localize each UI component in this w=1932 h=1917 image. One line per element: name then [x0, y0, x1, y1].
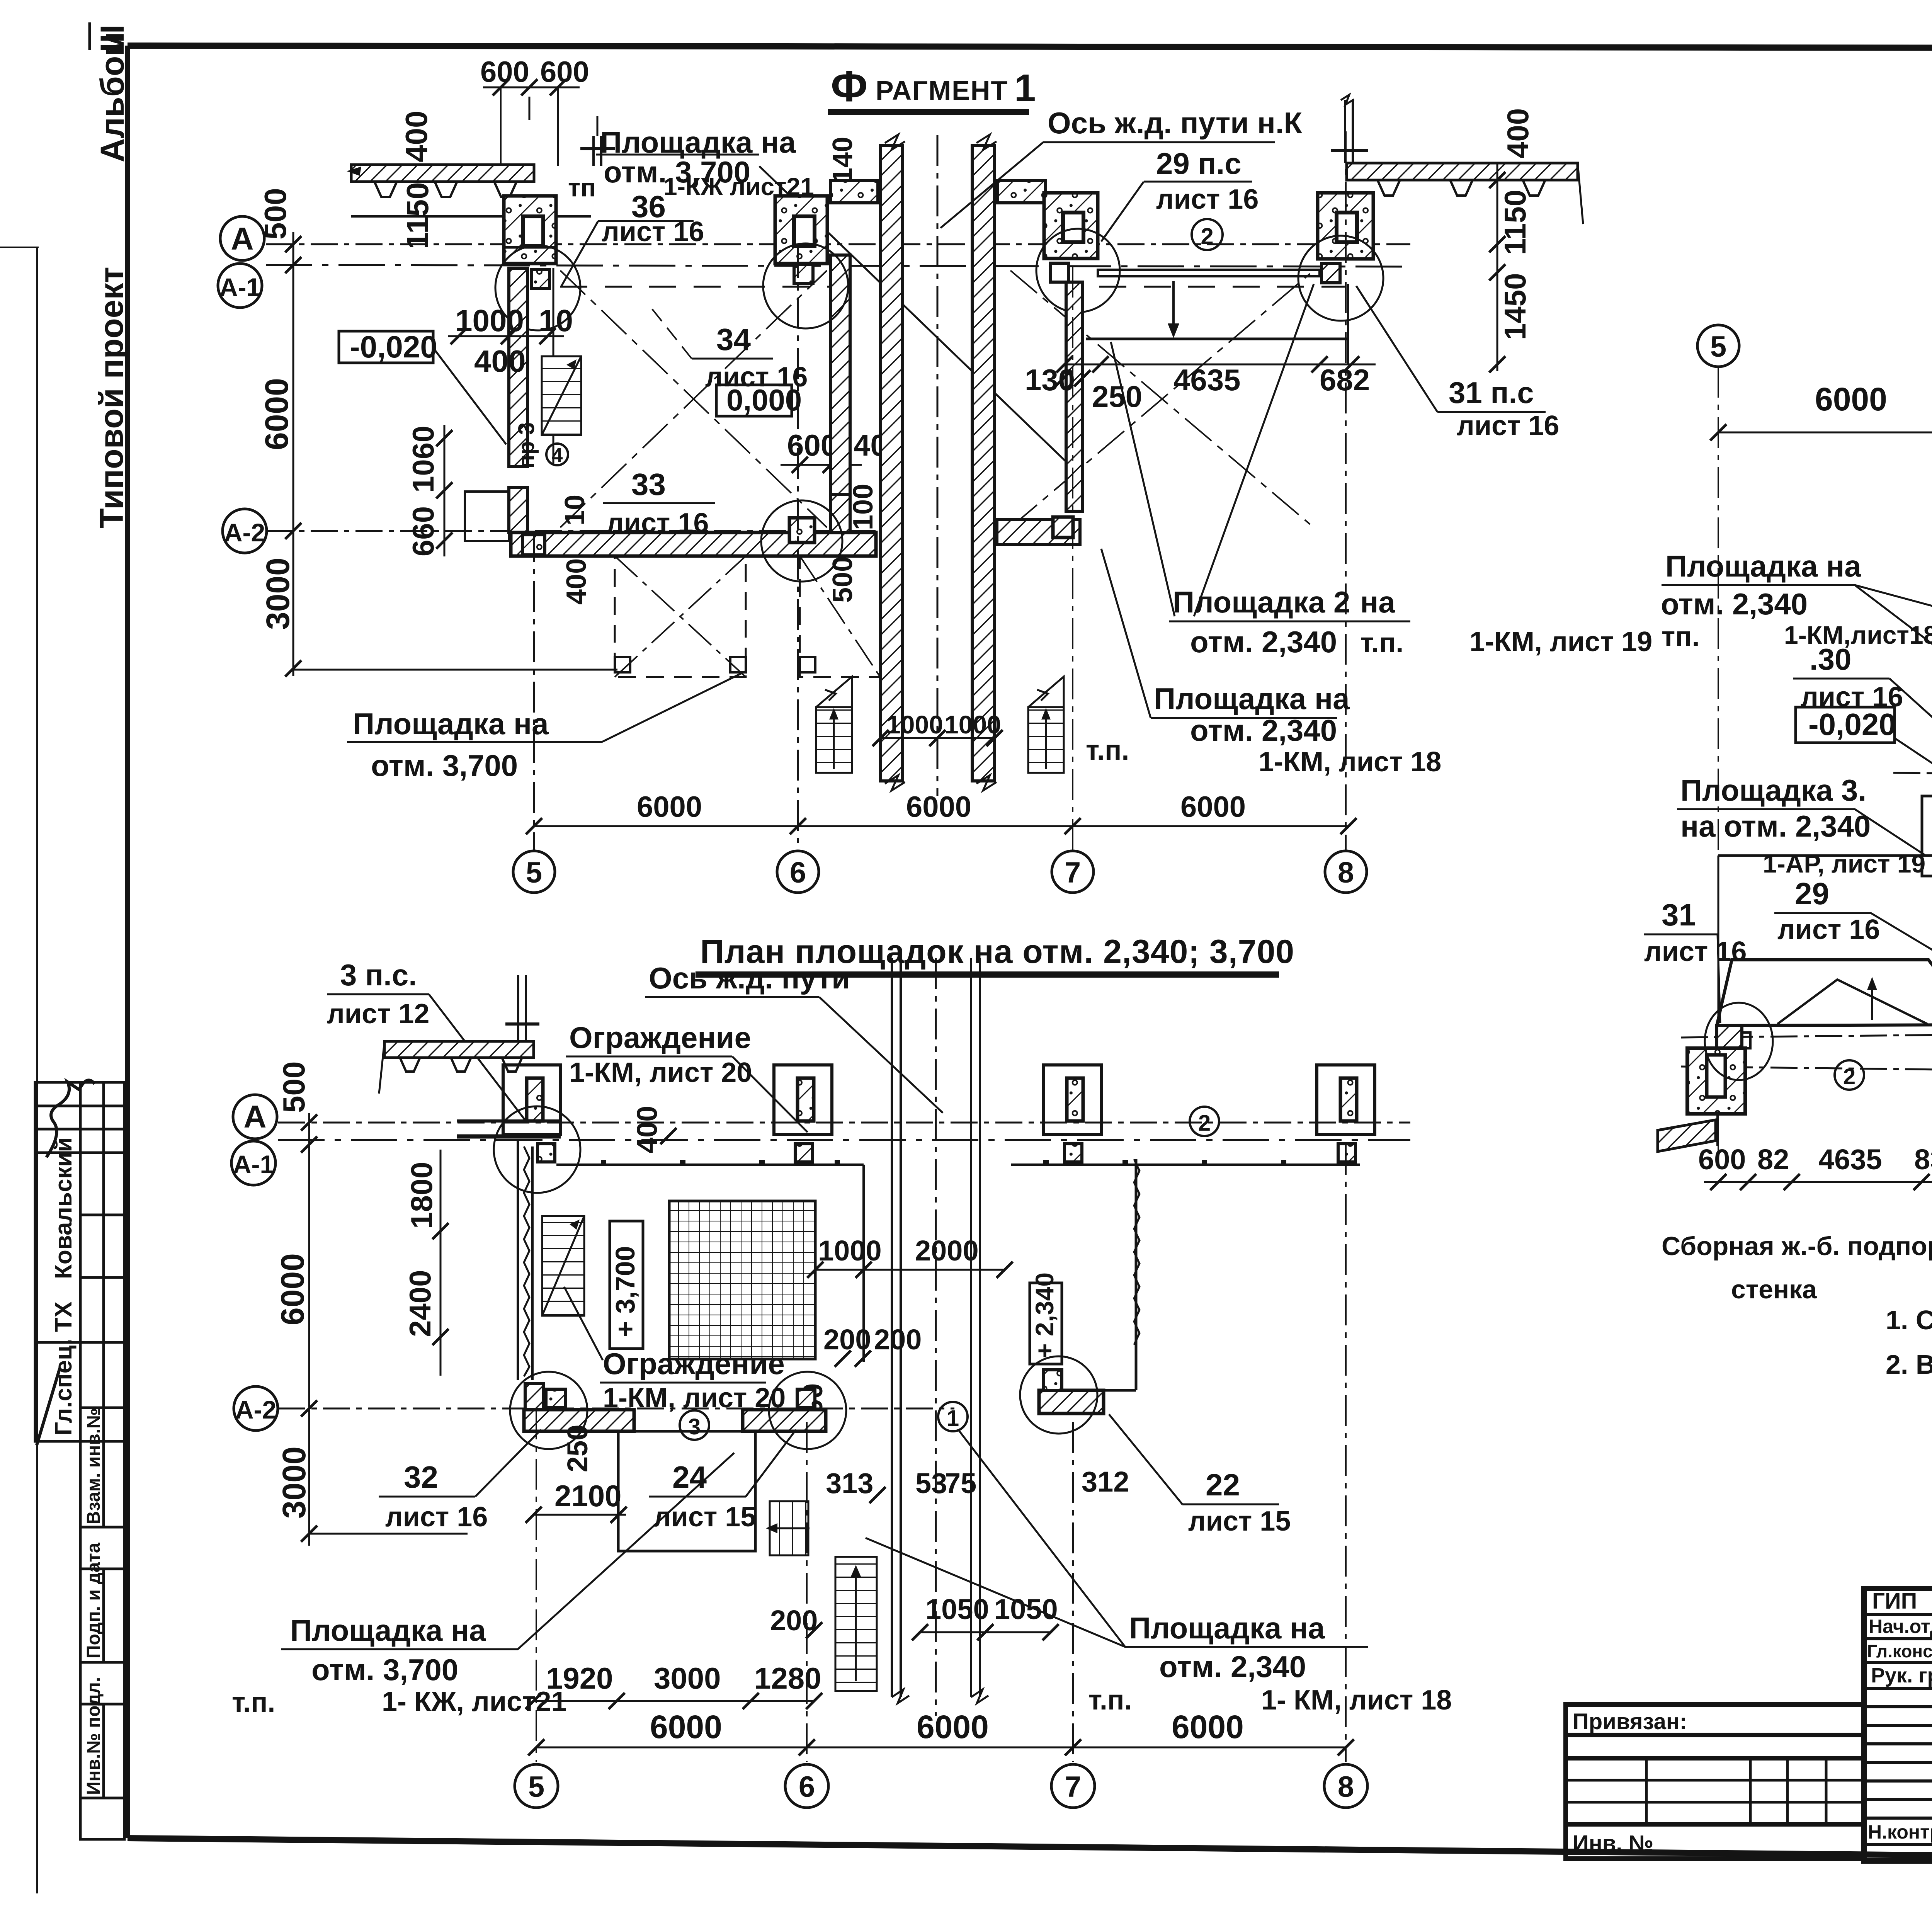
svg-text:1-КМ, лист 18: 1-КМ, лист 18 [1259, 747, 1441, 777]
column at axis7/A [1044, 193, 1098, 259]
svg-text:200: 200 [770, 1604, 818, 1636]
svg-text:Ограждение: Ограждение [603, 1347, 785, 1381]
svg-text:отм. 3,700: отм. 3,700 [371, 748, 518, 782]
outer sheet edge thin line left [36, 247, 38, 1893]
svg-text:313: 313 [826, 1467, 873, 1499]
lower room outline [618, 1431, 755, 1551]
wavy fence right side [1134, 1159, 1139, 1345]
axis circle 8 [1325, 851, 1367, 893]
lower margin boxes [80, 1441, 124, 1839]
svg-text:5: 5 [526, 856, 542, 889]
svg-text:3: 3 [688, 1414, 701, 1439]
dim line 4635 682 [1065, 364, 1376, 366]
Б axis [1681, 1067, 1932, 1078]
svg-text:100: 100 [848, 484, 879, 530]
svg-text:1- КМ, лист 18: 1- КМ, лист 18 [1261, 1685, 1452, 1716]
svg-text:III: III [94, 24, 131, 52]
svg-text:лист 16: лист 16 [385, 1502, 488, 1533]
circle 2 marker [1192, 219, 1223, 250]
svg-text:1060: 1060 [406, 425, 440, 493]
svg-text:2. Ведомость перемычек дана на: 2. Ведомость перемычек дана на листе 9. [1886, 1349, 1932, 1379]
circle 3 marker on A-2 [680, 1410, 709, 1440]
svg-text:лист 16: лист 16 [602, 216, 704, 247]
svg-text:1920: 1920 [546, 1661, 613, 1695]
svg-text:2400: 2400 [403, 1270, 437, 1337]
corner squares in band [522, 535, 545, 555]
left corner post [1717, 1026, 1742, 1048]
svg-text:500: 500 [827, 556, 858, 603]
stairs flanking rail below A-2 [816, 677, 1064, 773]
right vertical dim chain [1497, 162, 1498, 371]
svg-text:6000: 6000 [1180, 791, 1246, 823]
svg-text:Инв.№ подл.: Инв.№ подл. [83, 1677, 104, 1795]
svg-text:5: 5 [1710, 330, 1726, 363]
vertical axis stubs bottom [536, 1408, 537, 1762]
svg-text:400: 400 [399, 111, 434, 162]
svg-text:Площадка на: Площадка на [1665, 549, 1861, 583]
svg-text:А-1: А-1 [219, 273, 260, 301]
svg-text:Типовой проект: Типовой проект [93, 267, 130, 529]
svg-text:ГИП: ГИП [1872, 1589, 1917, 1614]
roof slab band (hatched) [351, 165, 534, 182]
svg-text:2: 2 [1198, 1111, 1211, 1136]
svg-text:83: 83 [1914, 1143, 1932, 1175]
column at axis5/A (concrete) [504, 196, 556, 264]
svg-text:на отм. 2,340: на отм. 2,340 [1680, 809, 1871, 843]
column at axis8/A [1318, 193, 1373, 259]
svg-text:10: 10 [539, 303, 573, 338]
svg-text:отм. 2,340: отм. 2,340 [1159, 1650, 1306, 1684]
big X cross right room (dash-dot) [1010, 270, 1314, 527]
svg-text:лист 15: лист 15 [653, 1502, 756, 1533]
svg-text:Ковальский: Ковальский [50, 1137, 77, 1279]
svg-text:400: 400 [631, 1106, 663, 1153]
rail corridor fragment 1 [881, 134, 997, 796]
small anchor square below column 5 [531, 269, 549, 289]
axis circle 8 [1324, 1764, 1367, 1808]
svg-text:т.п.: т.п. [1086, 735, 1129, 766]
svg-text:6000: 6000 [274, 1253, 311, 1325]
svg-text:682: 682 [1320, 363, 1370, 397]
svg-text:6000: 6000 [1815, 381, 1887, 417]
left vertical dim line [293, 232, 294, 676]
leaders to Площадка 2 label [1111, 342, 1175, 616]
svg-text:Площадка на: Площадка на [290, 1613, 486, 1647]
top wall stubs near rail [831, 180, 878, 203]
Б-1 axis [1681, 1028, 1932, 1038]
svg-text:Площадка 3.: Площадка 3. [1680, 773, 1866, 807]
svg-text:10: 10 [560, 495, 590, 526]
svg-text:А-2: А-2 [235, 1395, 276, 1424]
left assembly geometry [1658, 742, 1932, 1152]
bottom dim line and axis circles [534, 825, 1349, 827]
svg-text:4635: 4635 [1173, 363, 1241, 397]
detail circle at column 5 base [495, 245, 580, 330]
column plan at axis7/A [1043, 1065, 1101, 1135]
column plan at axis5/A [503, 1065, 561, 1135]
top dim line 6000x3 [1718, 432, 1932, 434]
axis circle 7 [1052, 851, 1094, 893]
svg-text:32: 32 [404, 1460, 438, 1494]
svg-text:400: 400 [561, 558, 592, 605]
svg-text:лист 16: лист 16 [1156, 184, 1259, 215]
-0,020 box left [1796, 707, 1895, 743]
svg-text:312: 312 [1082, 1466, 1129, 1498]
circle 4 marker [546, 444, 568, 465]
right corner assembly at A-2 [1039, 1390, 1104, 1414]
detail circle at corner [1705, 1003, 1773, 1080]
svg-text:3000: 3000 [260, 558, 296, 630]
svg-text:6000: 6000 [637, 791, 702, 823]
svg-text:600: 600 [1698, 1143, 1746, 1175]
axis A-1 dash-dot [278, 1139, 1410, 1141]
dashed future openings below A-2 [615, 556, 880, 677]
svg-text:А: А [231, 221, 253, 257]
svg-text:Площадка на: Площадка на [1129, 1611, 1325, 1645]
svg-text:Нач.отд.: Нач.отд. [1869, 1616, 1932, 1637]
svg-text:лист 16: лист 16 [1644, 936, 1747, 967]
svg-text:Гл.спец. ТХ: Гл.спец. ТХ [50, 1301, 77, 1436]
svg-text:0,000: 0,000 [726, 383, 802, 417]
svg-text:Гл.констр: Гл.констр [1867, 1641, 1932, 1661]
svg-text:1450: 1450 [1498, 273, 1532, 340]
retaining wall trapezoid [1717, 960, 1932, 1026]
long leader diagonal from Площадка label [759, 166, 1074, 469]
stair in pit [542, 356, 581, 435]
svg-text:РАГМЕНТ: РАГМЕНТ [876, 75, 1008, 105]
circle 2 markers [1835, 1060, 1864, 1090]
svg-text:лист 15: лист 15 [1188, 1506, 1291, 1537]
svg-text:+ 3,700: + 3,700 [610, 1246, 640, 1337]
leader from box [433, 348, 506, 444]
svg-text:-0,020: -0,020 [1808, 707, 1896, 742]
white pilaster [1922, 796, 1932, 876]
svg-text:.30: .30 [1810, 642, 1851, 676]
svg-text:тп: тп [568, 173, 596, 202]
svg-text:1000: 1000 [944, 710, 1001, 739]
roof slab right (axis8) [1347, 163, 1578, 180]
floor lines at platform level [1718, 854, 1932, 857]
svg-text:82: 82 [1757, 1143, 1789, 1175]
svg-text:отм. 2,340: отм. 2,340 [1190, 713, 1337, 747]
svg-text:8: 8 [1338, 1771, 1354, 1803]
svg-text:Взам. инв.№: Взам. инв.№ [83, 1408, 104, 1524]
0,000 box [716, 385, 792, 416]
axis circle A [220, 216, 264, 260]
anchor square below column 6 [794, 264, 813, 284]
axis circle 6 [777, 851, 819, 893]
svg-text:А-1: А-1 [233, 1150, 274, 1179]
axis circle 5 [513, 851, 555, 893]
dim line at y=1730 [293, 669, 617, 671]
fence post above roof [592, 136, 595, 166]
svg-text:7: 7 [1065, 856, 1081, 889]
axis A dash-dot [278, 1122, 1410, 1124]
axis circles 5-8 top [1697, 325, 1739, 367]
svg-text:1-КМ, лист 19: 1-КМ, лист 19 [1469, 626, 1652, 657]
svg-text:400: 400 [1501, 108, 1535, 158]
far footing [1687, 1048, 1745, 1114]
svg-text:т.п.: т.п. [1360, 628, 1403, 658]
svg-text:отм. 2,340: отм. 2,340 [1661, 587, 1808, 621]
svg-text:250: 250 [561, 1425, 594, 1472]
signature squiggle [46, 1080, 95, 1157]
svg-text:200: 200 [823, 1323, 871, 1356]
axis circle A [233, 1095, 277, 1139]
bottom band right room [997, 520, 1080, 544]
sloped slab lower left [1658, 1120, 1716, 1152]
svg-text:Н.контр.: Н.контр. [1868, 1821, 1932, 1843]
svg-text:т.п.: т.п. [232, 1687, 275, 1718]
stair plan left [542, 1216, 584, 1316]
wavy fence line (left wall) [524, 1146, 529, 1376]
svg-text:22: 22 [1206, 1468, 1240, 1502]
circle 2 marker [1190, 1107, 1219, 1136]
axis circle A-1 [231, 1141, 276, 1185]
axis circle 5 [515, 1764, 558, 1808]
svg-text:6000: 6000 [650, 1709, 722, 1745]
bottom walls at A-2 [524, 1410, 634, 1431]
Б-2 axis [1893, 773, 1932, 780]
svg-text:1000: 1000 [886, 710, 943, 739]
svg-text:500: 500 [277, 1061, 311, 1113]
svg-text:1-КМ,лист18: 1-КМ,лист18 [1784, 621, 1932, 649]
axis A-2 dash-dot line [266, 530, 881, 532]
column plan at axis6/A [774, 1065, 832, 1135]
svg-text:Инв. №: Инв. № [1573, 1831, 1653, 1856]
svg-text:7: 7 [1065, 1771, 1081, 1803]
svg-text:53: 53 [915, 1467, 947, 1499]
svg-text:Привязан:: Привязан: [1573, 1709, 1687, 1734]
svg-text:3000: 3000 [276, 1446, 312, 1519]
bottom wall band A-2 (left pit) [511, 532, 876, 556]
svg-text:Площадка 2: Площадка 2 [1173, 585, 1350, 619]
+3,700 box rotated [610, 1221, 643, 1349]
svg-text:6000: 6000 [906, 791, 971, 823]
stamp outer [1864, 1589, 1932, 1861]
axis A-2 dash-dot [278, 1408, 954, 1410]
svg-text:6000: 6000 [917, 1709, 989, 1745]
down arrow [1172, 281, 1175, 332]
axis circle A-2 [234, 1386, 278, 1431]
column plan at axis8/A [1317, 1065, 1375, 1135]
svg-text:на: на [1360, 585, 1395, 619]
roof slab band [384, 1041, 534, 1058]
rails (thin double lines) [892, 958, 980, 1697]
svg-text:-0,020: -0,020 [350, 330, 437, 364]
svg-text:200: 200 [874, 1323, 922, 1356]
svg-text:34: 34 [716, 322, 751, 357]
svg-text:5: 5 [528, 1771, 544, 1803]
east wall of left pit (axis6) hatched [831, 255, 850, 495]
svg-text:400: 400 [474, 344, 526, 378]
svg-text:Сборная ж.-б. подпорная: Сборная ж.-б. подпорная [1662, 1232, 1932, 1261]
svg-text:500: 500 [258, 188, 293, 240]
fence post [517, 975, 519, 1041]
svg-text:6: 6 [799, 1771, 815, 1803]
svg-text:1-КМ, лист 20: 1-КМ, лист 20 [569, 1057, 752, 1088]
ribbed slab underside [351, 182, 534, 197]
svg-text:1. Спецификация на ворота и дв: 1. Спецификация на ворота и двери дана н… [1886, 1305, 1932, 1335]
svg-text:1: 1 [947, 1406, 959, 1431]
vertical stair lower [835, 1557, 877, 1691]
svg-text:Подп. и дата: Подп. и дата [83, 1543, 104, 1658]
svg-text:1: 1 [1014, 66, 1036, 110]
svg-text:140: 140 [827, 137, 858, 183]
svg-text:А: А [243, 1099, 266, 1135]
svg-text:600: 600 [540, 56, 589, 88]
svg-text:2: 2 [1201, 223, 1213, 249]
svg-text:тп.: тп. [1662, 621, 1700, 652]
svg-text:3 п.с.: 3 п.с. [340, 958, 417, 992]
vertical axis stubs [533, 531, 535, 850]
svg-text:130: 130 [1025, 363, 1075, 397]
svg-text:лист 12: лист 12 [327, 998, 429, 1029]
svg-text:Ось ж.д. пути н.К: Ось ж.д. пути н.К [1048, 106, 1303, 140]
signature block table (top) [35, 1082, 124, 1441]
svg-text:29: 29 [1795, 876, 1829, 911]
svg-text:+ 2,340: + 2,340 [1030, 1272, 1059, 1358]
svg-text:стенка: стенка [1731, 1275, 1817, 1304]
svg-text:3000: 3000 [654, 1661, 721, 1695]
svg-text:1000: 1000 [818, 1235, 882, 1267]
svg-text:29 п.с: 29 п.с [1156, 146, 1242, 180]
axis A-1 dash-dot line [266, 265, 1410, 267]
svg-text:лист 16: лист 16 [1777, 914, 1880, 945]
svg-text:6: 6 [790, 856, 806, 889]
vertical axis dash-dot lines [1718, 367, 1719, 1152]
svg-text:Рук. гр.: Рук. гр. [1871, 1664, 1932, 1687]
svg-text:Ось ж.д. пути: Ось ж.д. пути [649, 961, 850, 995]
column at axis6/A [775, 196, 827, 264]
niche rectangle left of wall [465, 492, 509, 541]
svg-text:6000: 6000 [259, 378, 295, 450]
Привязан table [1566, 1704, 1864, 1859]
svg-text:Ф: Ф [831, 62, 868, 111]
svg-text:Ограждение: Ограждение [569, 1021, 751, 1055]
svg-text:31 п.с: 31 п.с [1449, 376, 1534, 410]
circle 1 marker [938, 1402, 968, 1431]
svg-text:8: 8 [1338, 856, 1354, 889]
svg-text:1150: 1150 [400, 182, 435, 249]
svg-text:А-2: А-2 [224, 518, 265, 547]
svg-text:т.п.: т.п. [1088, 1685, 1132, 1716]
svg-text:4635: 4635 [1818, 1143, 1882, 1175]
svg-text:отм. 3,700: отм. 3,700 [311, 1653, 458, 1687]
svg-text:1-АР, лист 19: 1-АР, лист 19 [1763, 849, 1925, 878]
horizontal stair lower [769, 1501, 810, 1555]
big X cross left pit (dash-dot) [560, 270, 827, 527]
svg-text:2: 2 [1843, 1064, 1855, 1089]
left vertical dim line [308, 1113, 310, 1546]
svg-text:4: 4 [552, 444, 563, 467]
svg-text:1280: 1280 [754, 1661, 821, 1695]
svg-text:1150: 1150 [1498, 190, 1532, 255]
axis circle A-1 [218, 264, 262, 308]
svg-text:1050: 1050 [994, 1593, 1058, 1625]
svg-text:24: 24 [672, 1460, 707, 1494]
svg-text:33: 33 [631, 467, 666, 502]
platform floor band axis7-8 [1098, 270, 1320, 276]
mesh grid [669, 1201, 815, 1359]
svg-text:660: 660 [406, 506, 440, 556]
svg-text:лист 16: лист 16 [1457, 410, 1559, 441]
axis circle A-2 [223, 509, 267, 553]
floor line of platform 2340 [1086, 338, 1349, 340]
fence post right [1344, 100, 1346, 163]
svg-text:31: 31 [1662, 898, 1696, 932]
svg-text:6000: 6000 [1172, 1709, 1244, 1745]
svg-text:2000: 2000 [915, 1235, 979, 1267]
axis A dash-dot line [266, 243, 1410, 245]
svg-text:отм. 2,340: отм. 2,340 [1190, 625, 1337, 659]
axis circle 7 [1051, 1764, 1095, 1808]
-0,020 box [339, 331, 433, 363]
svg-text:Площадка на: Площадка на [353, 707, 549, 741]
svg-text:2100: 2100 [554, 1479, 622, 1513]
svg-text:пр 3: пр 3 [514, 422, 539, 468]
svg-text:Площадка на: Площадка на [1154, 682, 1350, 716]
+2,340 box rotated [1030, 1283, 1062, 1364]
west wall of right room hatched [1066, 282, 1082, 511]
svg-text:250: 250 [1092, 379, 1142, 413]
axis circle 6 [785, 1764, 828, 1808]
wall below column 5 (hatched strip) [509, 268, 527, 466]
svg-text:1050: 1050 [925, 1593, 989, 1625]
svg-text:1800: 1800 [405, 1162, 439, 1229]
